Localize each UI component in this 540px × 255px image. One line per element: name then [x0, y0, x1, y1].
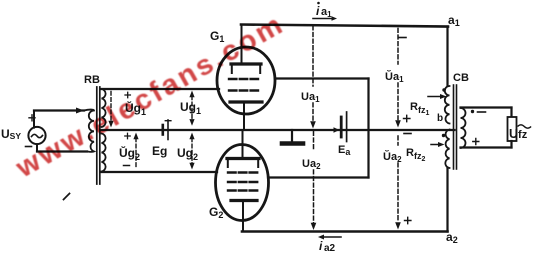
svg-text:Eg: Eg: [152, 144, 167, 158]
svg-text:Ufz: Ufz: [509, 127, 528, 141]
svg-text:b: b: [437, 113, 443, 124]
svg-text:RB: RB: [84, 74, 100, 86]
svg-text:CB: CB: [453, 72, 469, 84]
svg-text:a2: a2: [324, 243, 336, 254]
